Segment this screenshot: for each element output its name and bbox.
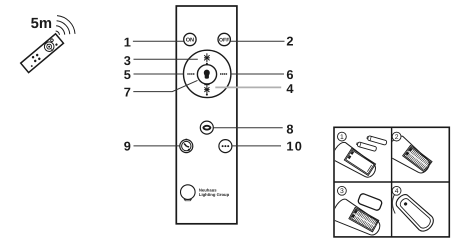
svg-text:4: 4 bbox=[286, 81, 294, 96]
svg-text:8: 8 bbox=[286, 122, 293, 137]
svg-text:OFF: OFF bbox=[219, 38, 229, 44]
svg-text:7: 7 bbox=[124, 84, 131, 99]
svg-text:3: 3 bbox=[340, 188, 344, 195]
svg-text:4: 4 bbox=[395, 188, 399, 195]
svg-text:1: 1 bbox=[340, 134, 344, 141]
svg-text:2: 2 bbox=[395, 134, 399, 141]
svg-text:10: 10 bbox=[286, 139, 303, 154]
svg-text:3: 3 bbox=[124, 53, 131, 68]
svg-text:9: 9 bbox=[124, 139, 131, 154]
svg-text:1: 1 bbox=[124, 35, 131, 50]
svg-text:2: 2 bbox=[286, 34, 293, 49]
svg-text:6: 6 bbox=[286, 67, 293, 82]
svg-text:ON: ON bbox=[186, 38, 194, 44]
svg-text:5m: 5m bbox=[31, 16, 52, 32]
svg-text:5: 5 bbox=[124, 67, 131, 82]
svg-text:Lighting Group: Lighting Group bbox=[199, 192, 230, 197]
